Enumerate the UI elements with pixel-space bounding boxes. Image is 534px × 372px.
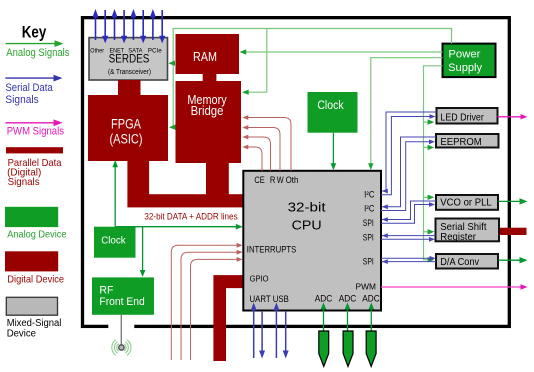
bus GPIO	[213, 275, 243, 361]
svg-text:Register: Register	[440, 231, 476, 243]
control wires CE R W Oth	[247, 118, 291, 171]
CPU label	[288, 200, 326, 233]
Memory Bridge block	[176, 81, 242, 163]
clock wire lower Clock to FPGA	[115, 133, 333, 274]
legend label Mixed-Signal Device	[7, 318, 62, 339]
system boundary border	[83, 18, 510, 327]
svg-text:Other: Other	[90, 47, 104, 54]
svg-text:Analog Device: Analog Device	[7, 229, 66, 241]
D/A Conv box	[436, 254, 498, 269]
serial pair SPI to VCO	[381, 201, 436, 223]
svg-text:SERDES: SERDES	[109, 53, 150, 65]
RAM block	[176, 34, 240, 74]
svg-text:ADC: ADC	[362, 294, 380, 305]
legend analog device swatch	[5, 207, 58, 227]
serial pair I2C to LED Driver	[381, 112, 437, 195]
svg-text:R: R	[270, 175, 276, 185]
svg-text:VCO or PLL: VCO or PLL	[440, 197, 492, 209]
svg-text:32-bit DATA + ADDR lines: 32-bit DATA + ADDR lines	[144, 212, 238, 223]
VCO or PLL box	[436, 195, 498, 210]
serial pair SPI to Serial Shift Register	[381, 236, 436, 240]
svg-text:PCIe: PCIe	[148, 47, 162, 54]
interrupt wires	[171, 245, 238, 360]
svg-text:(ASIC): (ASIC)	[110, 132, 143, 147]
antenna ball	[119, 345, 124, 350]
serial pair I2C to EEPROM	[381, 137, 436, 211]
UART wire pair	[254, 307, 286, 358]
svg-text:Mixed-Signal: Mixed-Signal	[7, 318, 62, 329]
Clock box upper	[308, 92, 358, 133]
svg-text:EEPROM: EEPROM	[440, 136, 481, 148]
svg-text:Device: Device	[7, 328, 37, 339]
svg-text:SPI: SPI	[363, 257, 374, 267]
Power Supply box	[443, 44, 496, 78]
legend analog signal arrow	[6, 40, 64, 47]
svg-text:RF: RF	[99, 285, 113, 297]
svg-text:FPGA: FPGA	[111, 117, 141, 132]
SERDES box	[89, 38, 168, 80]
svg-text:Serial Data: Serial Data	[5, 82, 53, 94]
svg-text:Supply: Supply	[448, 62, 482, 74]
svg-text:Clock: Clock	[101, 236, 126, 247]
ADC probe 2	[343, 331, 353, 367]
Clock box lower	[94, 227, 136, 258]
svg-text:32-bit: 32-bit	[288, 200, 326, 215]
bus RAM-MemoryBridge center leg	[203, 74, 217, 83]
antenna waves	[112, 340, 131, 356]
magenta PWM output	[381, 284, 528, 289]
serdes external blue arrows	[96, 10, 163, 40]
svg-text:D/A Conv: D/A Conv	[440, 256, 479, 268]
ADC probe 1	[319, 331, 329, 367]
analog outputs VCO and D/A	[499, 201, 523, 260]
svg-text:I²C: I²C	[364, 204, 375, 214]
svg-text:UART USB: UART USB	[250, 294, 289, 305]
svg-text:LED Driver: LED Driver	[440, 112, 484, 124]
bus Memory Bridge leg down	[206, 162, 229, 195]
antenna stem	[120, 315, 122, 346]
svg-text:W: W	[277, 175, 284, 185]
bus FPGA leg down	[127, 160, 149, 195]
bus Serial Shift Register external	[500, 228, 527, 235]
serial pair SPI to D/A Conv	[381, 258, 436, 261]
ADC sense arrows	[324, 307, 372, 331]
CPU pin labels ADC	[315, 294, 380, 305]
svg-text:CPU: CPU	[292, 218, 322, 233]
legend label Serial Data Signals	[5, 82, 53, 106]
svg-text:(& Transceiver): (& Transceiver)	[108, 69, 151, 76]
svg-text:Signals: Signals	[5, 94, 39, 106]
power wire PS to top rail	[171, 29, 452, 260]
svg-text:PWM: PWM	[356, 282, 376, 292]
RF Front End box	[92, 277, 154, 314]
CPU block	[243, 171, 381, 311]
svg-text:Analog Signals: Analog Signals	[6, 47, 70, 59]
bus SERDES-FPGA	[118, 80, 141, 95]
svg-text:Oth: Oth	[286, 175, 299, 185]
legend label Parallel Data (Digital) Signals	[7, 157, 62, 188]
legend PWM arrow	[5, 119, 62, 126]
svg-text:SPI: SPI	[363, 218, 374, 228]
border gap for antenna	[108, 323, 134, 332]
svg-text:Signals: Signals	[8, 176, 40, 188]
svg-text:SPI: SPI	[363, 232, 374, 242]
svg-text:Power: Power	[448, 48, 480, 60]
svg-text:Key: Key	[22, 24, 47, 42]
svg-text:CE: CE	[254, 175, 264, 185]
legend parallel data bar	[6, 147, 63, 153]
bus 32-bit data horizontal	[127, 194, 243, 207]
legend serial data arrow	[5, 75, 62, 82]
svg-text:PWM Signals: PWM Signals	[7, 126, 65, 138]
Serial Shift Register box	[436, 219, 500, 242]
svg-text:Front End: Front End	[99, 296, 144, 308]
svg-text:GPIO: GPIO	[250, 274, 269, 284]
svg-text:RAM: RAM	[193, 49, 217, 64]
SERDES port labels	[90, 47, 162, 54]
svg-text:INTERRUPTS: INTERRUPTS	[247, 245, 296, 256]
legend digital device swatch	[5, 251, 58, 271]
ADC probe 3	[366, 331, 376, 367]
svg-text:Bridge: Bridge	[191, 104, 224, 118]
CPU pin labels right	[363, 190, 375, 267]
FPGA block	[88, 95, 168, 161]
power arrows green	[168, 49, 434, 262]
legend mixed-signal swatch	[6, 297, 57, 315]
EEPROM box	[436, 134, 499, 148]
CPU pin labels CE R W Oth	[254, 175, 298, 185]
svg-text:Digital Device: Digital Device	[7, 273, 64, 285]
svg-text:I²C: I²C	[364, 190, 375, 200]
magenta LED driver output	[498, 114, 528, 119]
svg-text:Clock: Clock	[317, 100, 344, 112]
LED Driver box	[437, 108, 498, 124]
